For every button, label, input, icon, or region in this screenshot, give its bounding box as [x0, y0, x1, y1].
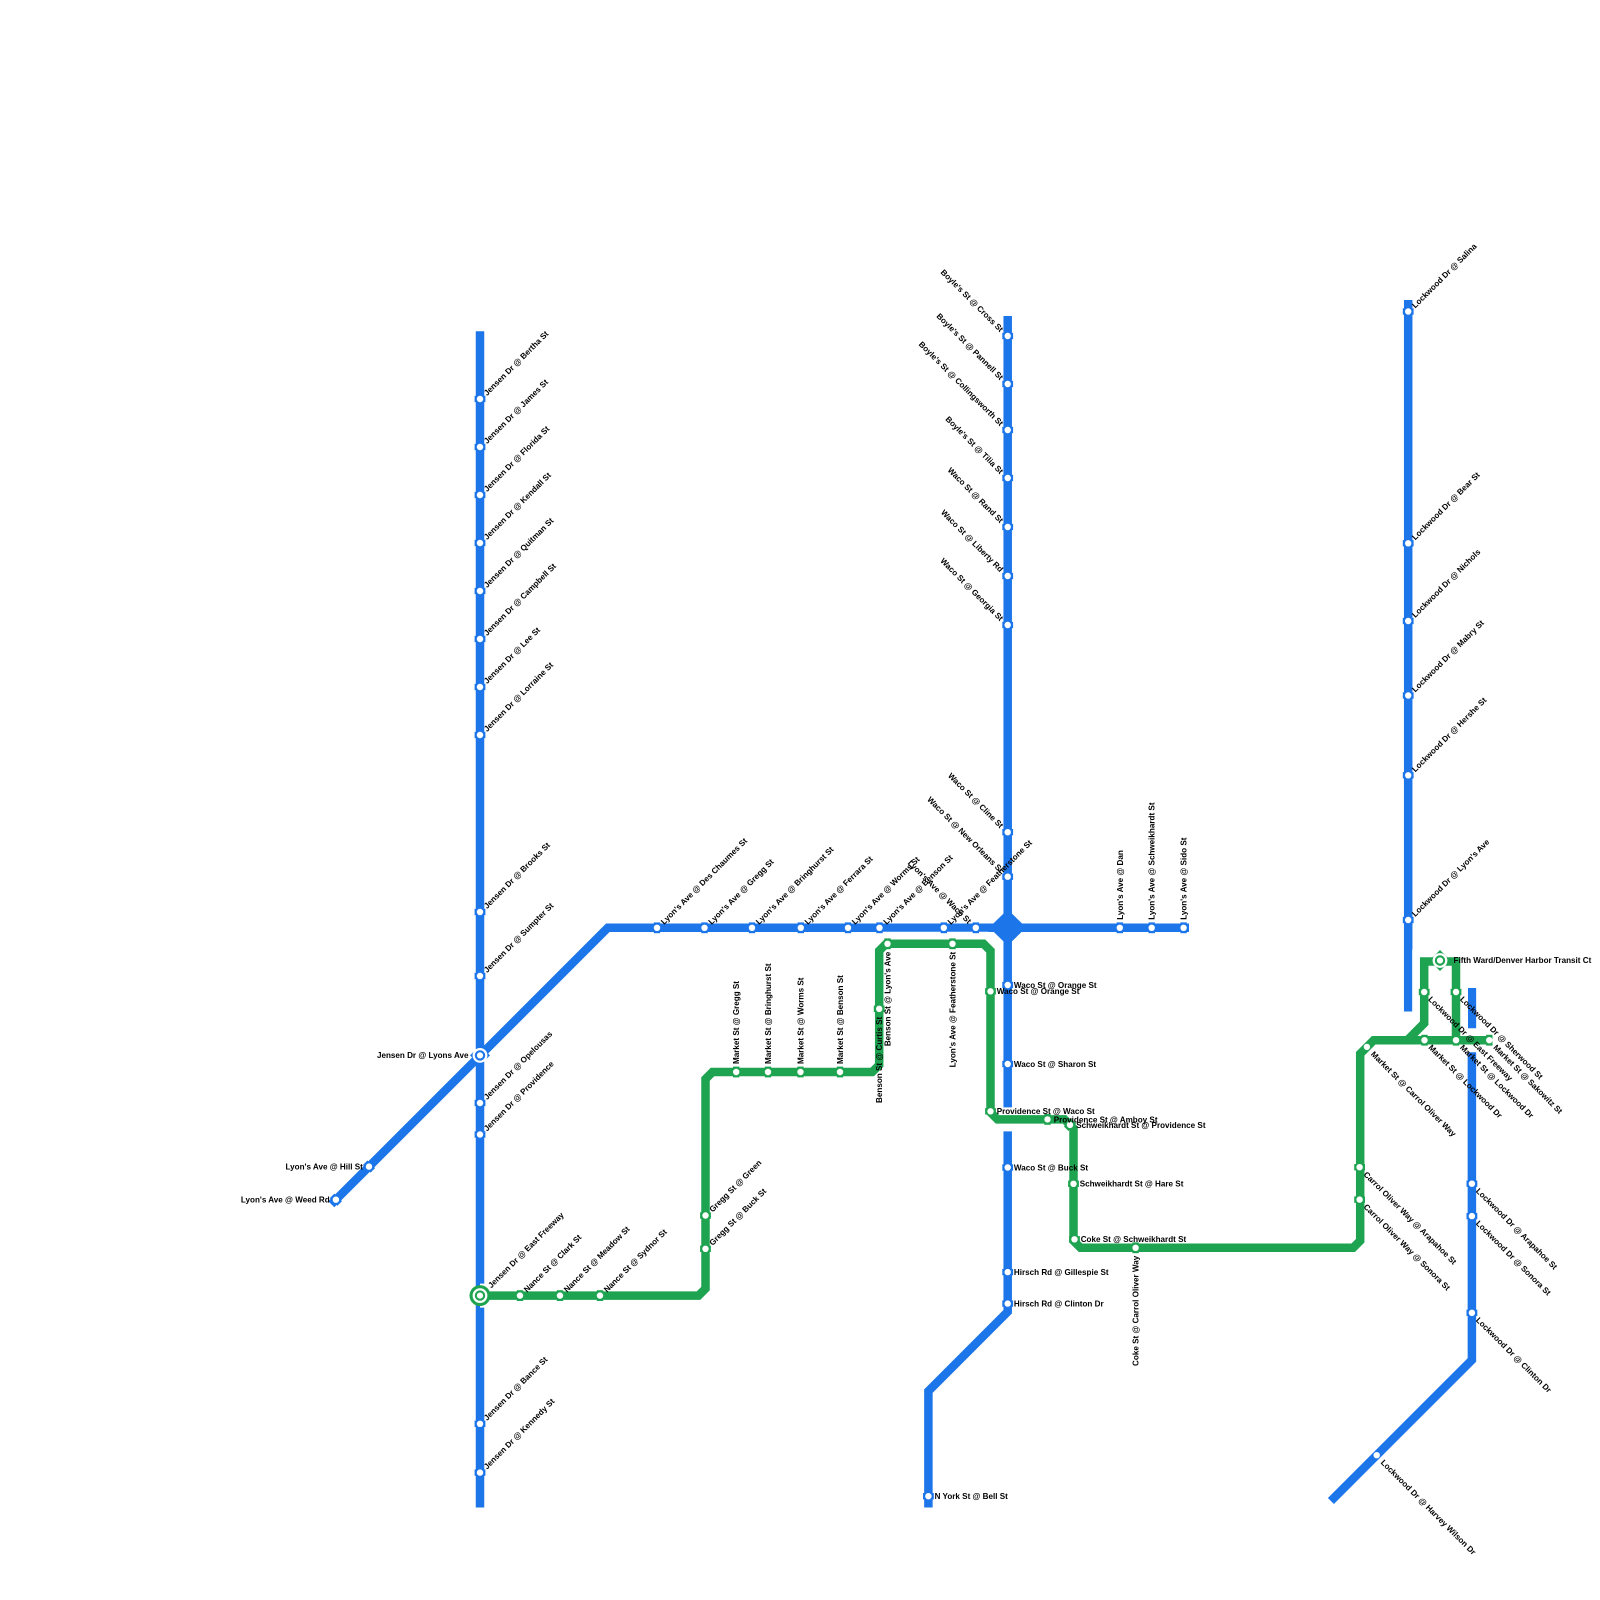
node station Market St @ Bringhurst St: [765, 1067, 771, 1078]
node station Lockwood Dr @ Clinton Dr: [1467, 1310, 1478, 1316]
node station Jensen Dr @ Lorraine St: [475, 732, 486, 738]
node station Waco St @ Buck St: [1002, 1164, 1013, 1170]
wire: green Lockwood west leg: [1407, 962, 1441, 1041]
wire: Lockwood Dr north blue line: [1404, 300, 1413, 1012]
node station Market St @ Lockwood Dr: [1453, 1035, 1459, 1046]
node station Coke St @ Carrol Oliver Way: [1132, 1242, 1138, 1253]
node station Lockwood Dr @ Bear St: [1403, 540, 1414, 546]
node station Gregg St @ Green: [700, 1212, 711, 1218]
node terminal Jensen Dr @ East Freeway: [470, 1285, 491, 1306]
node terminal Fifth Ward/Denver Harbor Transit Ct: [1430, 950, 1451, 971]
node station Hirsch Rd @ Clinton Dr: [1002, 1300, 1013, 1306]
svg-text:Lyon's Ave @ Hill St: Lyon's Ave @ Hill St: [286, 1163, 364, 1172]
node station Benson St @ Lyon's Ave: [884, 938, 890, 949]
node station Lockwood Dr @ Lyon's Ave: [1403, 917, 1414, 923]
node station Waco St @ Georgia St: [1002, 622, 1013, 628]
node station Market St @ Carrol Oliver Way: [1361, 1041, 1373, 1053]
node station Jensen Dr @ Kendall St: [475, 540, 486, 546]
node station Lyon's Ave @ Ferrara St: [798, 922, 804, 933]
node station Lyon's Ave @ Hill St: [363, 1161, 375, 1173]
node station Providence St @ Amboy St: [1044, 1114, 1050, 1125]
svg-text:Lyon's Ave @ Weed Rd: Lyon's Ave @ Weed Rd: [241, 1196, 330, 1205]
node station Lyon's Ave @ Sido St: [1180, 922, 1186, 933]
svg-text:Lyon's Ave @ Featherstone St: Lyon's Ave @ Featherstone St: [949, 952, 958, 1068]
node station Nance St @ Sydnor St: [597, 1290, 603, 1301]
node station Jensen Dr @ Opelousas: [475, 1100, 486, 1106]
svg-text:Waco St @ Sharon St: Waco St @ Sharon St: [1014, 1060, 1097, 1069]
wire: Lyons Ave blue line: [331, 928, 1189, 1205]
node station Providence St @ Waco St: [985, 1108, 996, 1114]
node station Coke St @ Schweikhardt St: [1069, 1236, 1080, 1242]
node station Jensen Dr @ Bertha St: [475, 396, 486, 402]
node station Lyon's Ave @ Des Chaumes St: [654, 922, 660, 933]
svg-text:Hirsch Rd @ Gillespie St: Hirsch Rd @ Gillespie St: [1014, 1268, 1109, 1277]
svg-text:Waco St @ Orange St: Waco St @ Orange St: [997, 987, 1080, 996]
node station Jensen Dr @ Brooks St: [475, 909, 486, 915]
node station Jensen Dr @ Florida St: [475, 492, 486, 498]
svg-text:Fifth Ward/Denver Harbor Trans: Fifth Ward/Denver Harbor Transit Ct: [1454, 956, 1592, 965]
node station Lockwood Dr @ Salina: [1403, 308, 1414, 314]
node station Jensen Dr @ Kennedy St: [475, 1469, 486, 1475]
wire: green route (Nance/Gregg/Market/Benson/Providence/Schweikhardt/Coke/Carrol Oliver): [480, 944, 1492, 1296]
node station Lockwood Dr @ Mabry St: [1403, 692, 1414, 698]
node station Boyle's St @ Tilia St: [1002, 475, 1013, 481]
node station Waco St @ Rand St: [1002, 524, 1013, 530]
node station Waco St @ Liberty Rd: [1002, 573, 1013, 579]
node station Benson St @ Curtis St: [874, 1006, 885, 1012]
node station Nance St @ Clark St: [517, 1290, 523, 1301]
node station Gregg St @ Buck St: [700, 1246, 711, 1252]
node station Lockwood Dr @ East Freeway: [1419, 989, 1430, 995]
svg-text:Benson St @ Lyon's Ave: Benson St @ Lyon's Ave: [884, 951, 893, 1046]
wire: Lockwood Dr south blue line: [1331, 988, 1472, 1501]
node station Carrol Oliver Way @ Arapahoe St: [1354, 1164, 1365, 1170]
svg-text:Market St @ Bringhurst St: Market St @ Bringhurst St: [764, 963, 773, 1064]
node station Jensen Dr @ James St: [475, 444, 486, 450]
wire: green Lockwood east leg: [1439, 962, 1456, 1045]
node station Jensen Dr @ Bance St: [475, 1421, 486, 1427]
node station Jensen Dr @ Quitman St: [475, 588, 486, 594]
node station Lyon's Ave @ Worms St: [845, 922, 851, 933]
svg-text:Hirsch Rd @ Clinton Dr: Hirsch Rd @ Clinton Dr: [1014, 1300, 1105, 1309]
svg-text:Lyon's Ave @ Sido St: Lyon's Ave @ Sido St: [1180, 837, 1189, 920]
node station Waco St @ Cline St: [1002, 829, 1013, 835]
node station Lyon's Ave @ Schweikhardt St: [1149, 922, 1155, 933]
node station Waco St @ Orange St: [985, 988, 996, 994]
node station Lockwood Dr @ Arapahoe St: [1467, 1181, 1478, 1187]
node station Jensen Dr @ Providence: [475, 1131, 486, 1137]
node station Lyon's Ave @ Dan: [1117, 922, 1123, 933]
node interchange Jensen Dr @ Lyons Ave: [470, 1045, 490, 1065]
svg-text:Lyon's Ave @ Dan: Lyon's Ave @ Dan: [1116, 850, 1125, 920]
svg-text:Schweikhardt St @ Providence S: Schweikhardt St @ Providence St: [1076, 1121, 1206, 1130]
node station Lyon's Ave @ Benson St: [876, 922, 882, 933]
node station Market St @ Benson St: [837, 1067, 843, 1078]
node station Jensen Dr @ Lee St: [475, 684, 486, 690]
svg-text:Coke St @ Carrol Oliver Way: Coke St @ Carrol Oliver Way: [1132, 1255, 1141, 1366]
node station Boyle's St @ Collingsworth St: [1002, 427, 1013, 433]
node station Lyon's Ave @ Featherstone St: [949, 938, 955, 949]
node station Lyon's Ave @ Gregg St: [701, 922, 707, 933]
node station Market St @ Gregg St: [733, 1067, 739, 1078]
node station Market St @ Sakowitz St: [1486, 1035, 1492, 1046]
node station Lyon's Ave @ Weed Rd: [330, 1194, 342, 1206]
node station Boyle's St @ Pannell St: [1002, 381, 1013, 387]
node station N York St @ Bell St: [923, 1493, 934, 1499]
node station Lockwood Dr @ Nichols: [1403, 618, 1414, 624]
node station Waco St @ Sharon St: [1002, 1061, 1013, 1067]
node station Lockwood Dr @ Harvey Wilson Dr: [1371, 1449, 1383, 1461]
node station Market St @ Lockwood Dr: [1421, 1035, 1427, 1046]
node station Nance St @ Meadow St: [557, 1290, 563, 1301]
svg-text:Market St @ Benson St: Market St @ Benson St: [836, 975, 845, 1064]
wire: green route white casing: [480, 944, 1492, 1296]
node station Lyon's Ave @ Waco St: [973, 922, 979, 933]
svg-text:Schweikhardt St @ Hare St: Schweikhardt St @ Hare St: [1080, 1180, 1184, 1189]
svg-text:Market St @ Worms St: Market St @ Worms St: [797, 977, 806, 1064]
node station Lyon's Ave @ Featherstone St: [941, 922, 947, 933]
node station Lockwood Dr @ Hershe St: [1403, 772, 1414, 778]
node interchange diamond Lyons Ave / Waco St: [989, 910, 1026, 946]
svg-text:Jensen Dr @ Lyons Ave: Jensen Dr @ Lyons Ave: [377, 1051, 469, 1060]
wire: Waco St / Hirsch Rd / N York St blue line: [928, 316, 1007, 1508]
node station Carrol Oliver Way @ Sonora St: [1354, 1196, 1365, 1202]
node station Schweikhardt St @ Hare St: [1068, 1181, 1079, 1187]
node station Jensen Dr @ Sumpter St: [475, 973, 486, 979]
node station Lockwood Dr @ Sherwood St: [1451, 989, 1462, 995]
node station Waco St @ Orange St: [1002, 982, 1013, 988]
svg-text:Market St @ Gregg St: Market St @ Gregg St: [732, 981, 741, 1064]
node station Jensen Dr @ Campbell St: [475, 636, 486, 642]
node station Lyon's Ave @ Bringhurst St: [749, 922, 755, 933]
node station Boyle's St @ Cross St: [1002, 333, 1013, 339]
node station Waco St @ New Orleans St: [1002, 874, 1013, 880]
node station Market St @ Worms St: [797, 1067, 803, 1078]
node station Schweikhardt St @ Providence St: [1064, 1119, 1076, 1131]
node station Hirsch Rd @ Gillespie St: [1002, 1269, 1013, 1275]
svg-text:Waco St @ Buck St: Waco St @ Buck St: [1014, 1163, 1088, 1172]
node station Lockwood Dr @ Sonora St: [1467, 1213, 1478, 1219]
wire: Jensen Dr blue line: [476, 331, 485, 1507]
svg-text:N York St @ Bell St: N York St @ Bell St: [935, 1492, 1009, 1501]
svg-text:Coke St @ Schweikhardt St: Coke St @ Schweikhardt St: [1081, 1235, 1187, 1244]
svg-text:Lyon's Ave @ Schweikhardt St: Lyon's Ave @ Schweikhardt St: [1148, 802, 1157, 920]
